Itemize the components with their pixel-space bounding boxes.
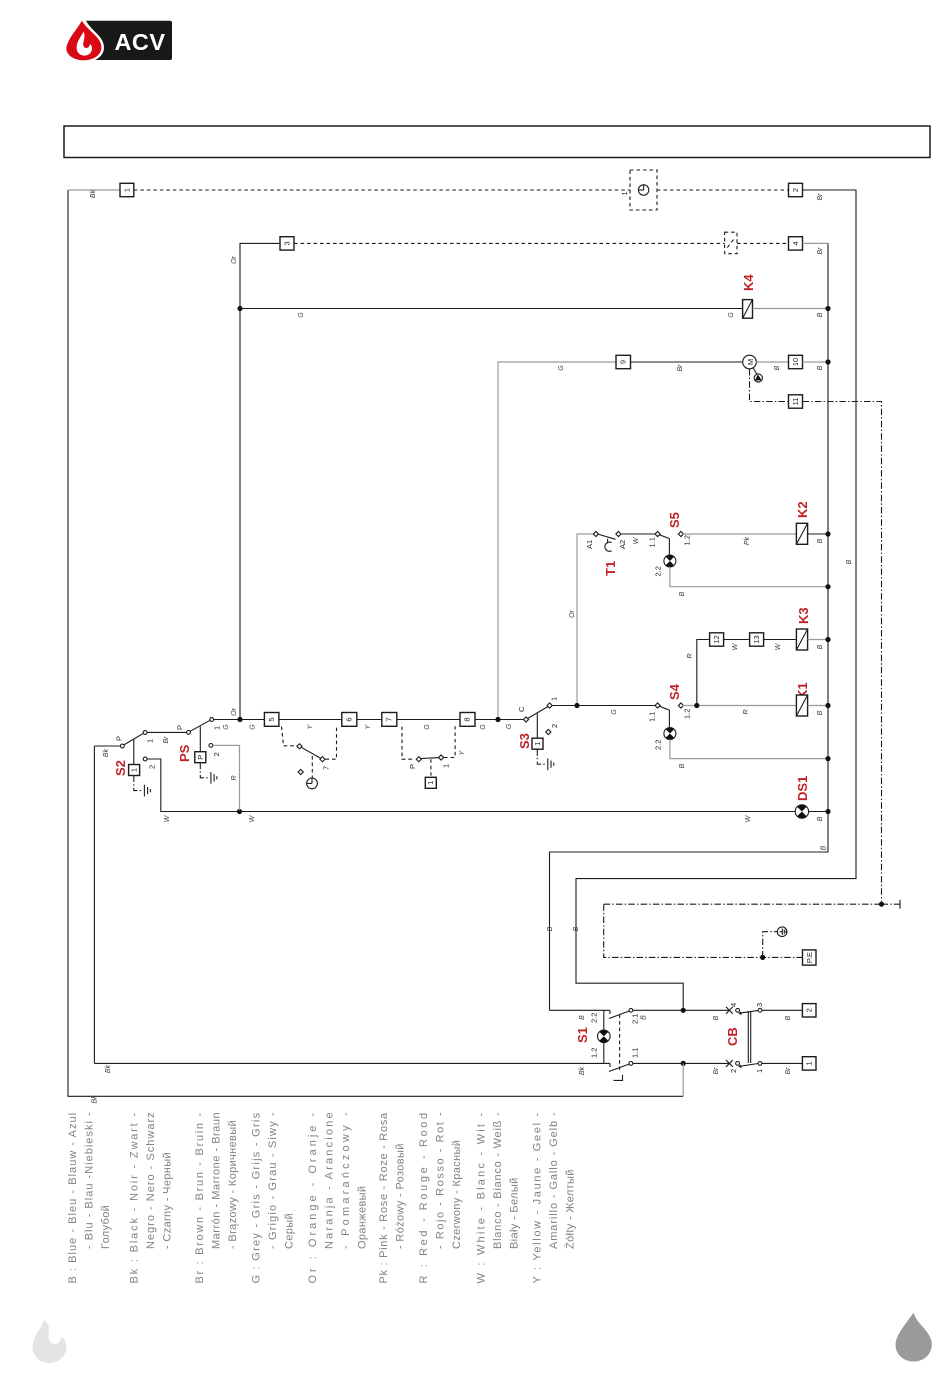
wire Or connector 3 stem [240,243,280,719]
terminal PE box [803,950,817,965]
svg-text:B : Blue - Bleu - Blauw - Azu: B : Blue - Bleu - Blauw - Azul [67,1113,79,1284]
svg-text:R: R [231,775,238,780]
svg-text:P: P [408,764,417,769]
svg-text:1.2: 1.2 [590,1048,599,1058]
wire B lamp S5 to bus [670,567,828,587]
svg-text:13: 13 [752,635,761,643]
svg-text:- Czarny - Черный: - Czarny - Черный [162,1152,174,1249]
wire B K2 to bus [808,533,828,535]
svg-text:1: 1 [620,191,629,195]
wire dashed connector 3 to option switch [294,242,725,244]
svg-text:Or: Or [231,255,238,263]
wire dashed timer to connector 2 [657,189,789,191]
connector 7 [382,713,397,727]
bus B vertical [550,243,829,1010]
svg-text:1: 1 [426,781,435,785]
svg-text:R: R [743,709,750,714]
wire Y 5 to 6 [279,719,342,721]
legend Y yellow [531,1112,576,1284]
svg-text:1: 1 [213,726,222,730]
node S4-bus [825,756,830,761]
wire B DS1 to bus [809,811,828,813]
switch S1 pole 1 wire [94,1062,610,1064]
svg-text:B: B [817,644,824,649]
svg-text:1: 1 [146,739,155,743]
node DS1-bus [825,809,830,814]
wire G S3 to S4 [552,705,657,707]
dashed link S1 poles [619,1015,621,1071]
svg-text:Bk: Bk [105,1064,112,1073]
svg-text:T1: T1 [603,561,618,576]
option switch dashed box [725,232,737,254]
pressure switch PS [176,718,222,763]
wire Or vertical to T1 [577,534,595,706]
svg-text:B: B [679,763,686,768]
svg-text:Amarillo - Gallo - Gelb -: Amarillo - Gallo - Gelb - [548,1112,560,1249]
wire R stem to connector 12 [697,640,710,706]
switch S1 pole 2 [590,1008,640,1024]
svg-text:K3: K3 [796,607,811,624]
svg-text:Bk: Bk [579,1066,586,1075]
svg-text:1: 1 [805,1061,814,1065]
wire Y 6 to 7 [357,719,382,721]
relay coil K3 [796,629,807,650]
svg-text:B: B [679,591,686,596]
node 10-bus [825,359,830,364]
wire B K3 to bus [808,639,828,641]
wire B motor to connector 10 [756,361,788,363]
wire Br connector 4 to bus B [803,242,829,244]
svg-text:DS1: DS1 [795,776,810,801]
svg-text:1.2: 1.2 [683,709,692,719]
wire Br connector 2 to right bus [576,190,856,1010]
svg-text:- Różowy - Розовый: - Różowy - Розовый [395,1143,407,1249]
svg-text:Серый: Серый [284,1213,296,1249]
svg-text:Оранжевый: Оранжевый [357,1186,369,1249]
svg-text:Br: Br [817,193,824,201]
ground PS [200,763,217,784]
wire return S1 to bottom rail [682,1063,684,1096]
switch S2 [94,745,120,747]
svg-text:G: G [223,724,230,730]
switch S3 [517,697,559,749]
svg-text:B: B [713,1015,720,1020]
svg-text:B: B [817,365,824,370]
svg-text:1.2: 1.2 [683,535,692,545]
lamp DS1 [795,805,808,818]
connector 4 [789,237,803,250]
svg-text:Bk: Bk [92,1095,99,1104]
svg-text:S4: S4 [667,683,682,700]
switch S1 pole 2 wire [550,1009,611,1011]
wire W S2 to DS1 [147,759,795,812]
svg-text:B: B [817,312,824,317]
svg-text:5: 5 [267,717,276,721]
svg-text:G: G [506,723,513,729]
legend R red [418,1112,463,1284]
switch S5 with lamp [648,531,692,555]
svg-text:9: 9 [619,360,628,364]
circuit breaker CB pole 1 [726,1060,764,1073]
wire G 8 to S3 [475,719,524,721]
svg-text:ACV: ACV [114,29,165,55]
svg-text:1: 1 [550,697,559,701]
svg-text:Negro - Nero - Schwarz: Negro - Nero - Schwarz [145,1112,157,1249]
connector 2 [789,183,803,196]
wire Bk feed to connector 1 [68,189,120,191]
svg-text:B: B [579,1015,586,1020]
svg-text:R: R [687,653,694,658]
node S3 wire / Or vertical [574,703,579,708]
mechanical link CB [748,1011,750,1063]
node K3-bus [825,637,830,642]
svg-text:B: B [573,926,580,931]
svg-text:7: 7 [322,766,331,770]
wire W 12 to 13 [724,639,750,641]
svg-text:B: B [817,710,824,715]
watermark flame bottom-left [33,1320,67,1363]
wire Br S2 to PS [147,731,187,733]
svg-text:Br: Br [713,1067,720,1075]
wire Bk S1 to CB pole 1 [633,1062,729,1064]
node G-row / motor stem [495,717,500,722]
svg-text:S3: S3 [517,733,532,749]
svg-text:2: 2 [550,724,559,728]
svg-text:S2: S2 [113,760,128,776]
connector 1 [120,183,134,196]
svg-text:Br: Br [163,736,170,744]
svg-text:Pk: Pk [744,536,751,545]
circuit breaker CB pole 2 [726,1003,764,1015]
svg-text:Żółty - Желтый: Żółty - Желтый [564,1169,577,1249]
wire R PS-2 drop [213,745,240,810]
ground S3 [537,749,554,770]
svg-text:M: M [746,359,755,365]
svg-text:B: B [821,845,828,850]
wire B K4 to bus [753,308,829,310]
svg-text:Blanco - Bianco - Weiß -: Blanco - Bianco - Weiß - [492,1112,504,1249]
svg-text:Br : Brown - Brun - Bruin -: Br : Brown - Brun - Bruin - [194,1113,206,1284]
wire PE dash-dot loop [604,903,882,905]
wire R S4 to K1 coil [683,705,797,707]
node K2-bus [825,531,830,536]
svg-text:7: 7 [385,717,394,721]
wire G to K4 coil [240,308,743,310]
option room stat between 7 and 8 [402,726,466,788]
node S1-CB top [681,1008,686,1013]
svg-text:2.1: 2.1 [631,1014,640,1024]
svg-text:S1: S1 [575,1027,590,1043]
connector 3 [280,237,294,250]
ground S2 [134,776,151,797]
switch S4 with lamp [648,703,692,728]
switch S1 pole 1 [590,1048,640,1081]
connector 8 [460,713,475,727]
svg-text:2.2: 2.2 [654,566,663,576]
svg-text:- Brązowy - Коричневый: - Brązowy - Коричневый [227,1120,239,1249]
svg-text:1: 1 [755,1069,764,1073]
svg-text:2.2: 2.2 [654,740,663,750]
timer option dashed box [630,170,657,210]
svg-text:- Rojo - Rosso - Rot -: - Rojo - Rosso - Rot - [435,1112,447,1249]
svg-text:Bk : Black - Noir - Zwart -: Bk : Black - Noir - Zwart - [129,1113,141,1284]
svg-text:2: 2 [805,1008,814,1012]
svg-text:6: 6 [345,717,354,721]
svg-text:G: G [480,724,487,730]
svg-text:K2: K2 [795,501,810,518]
connector 13 [750,633,764,646]
svg-text:B: B [774,365,781,370]
wire B S1 to CB pole 2 [633,1009,729,1011]
svg-text:Br: Br [677,364,684,372]
svg-text:C: C [517,706,526,712]
PE end tick [882,900,901,909]
svg-text:P: P [176,725,185,730]
svg-text:- Grigio - Grau - Siwy -: - Grigio - Grau - Siwy - [267,1112,279,1249]
lamp S4 2.2 [654,728,676,751]
svg-text:B: B [817,816,824,821]
legend B blue [67,1112,112,1284]
svg-text:Marrón - Marrone - Braun: Marrón - Marrone - Braun [211,1112,223,1249]
node PE branch [760,955,765,960]
svg-text:12: 12 [712,635,721,643]
node Or-row [237,717,242,722]
svg-text:K4: K4 [741,274,756,291]
connector 11 [789,395,803,408]
svg-text:B: B [846,559,853,564]
connector 1 bottom [802,1057,816,1070]
svg-text:Br: Br [817,247,824,255]
svg-text:Czerwony - Красный: Czerwony - Красный [451,1140,463,1249]
svg-text:B: B [817,538,824,543]
connector 12 [710,633,724,646]
legend Pk pink [378,1112,407,1284]
earth symbol in circle [763,927,787,958]
svg-text:3: 3 [283,241,292,245]
svg-text:G: G [424,724,431,730]
svg-text:W : White - Blanc - Wit -: W : White - Blanc - Wit - [475,1113,487,1284]
svg-text:Y : Yellow - Jaune - Geel -: Y : Yellow - Jaune - Geel - [531,1113,543,1284]
svg-text:G: G [558,365,565,371]
legend W white [475,1112,520,1284]
svg-text:P.E: P.E [805,952,814,963]
svg-text:S5: S5 [667,512,682,528]
svg-text:1: 1 [123,188,132,192]
svg-text:Bk: Bk [90,189,97,198]
svg-text:4: 4 [729,1003,738,1007]
switch S2 contacts [115,731,157,776]
svg-text:PS: PS [177,744,192,762]
wire G PS to connector row [214,719,265,721]
thermostat T1 [585,531,627,551]
watermark droplet bottom-right [896,1313,932,1362]
connector 9 [616,355,631,368]
option timer between 5 and 6 [282,726,337,789]
svg-text:10: 10 [791,358,800,366]
svg-text:CB: CB [725,1027,740,1046]
svg-text:G: G [250,724,257,730]
svg-text:Br: Br [785,1067,792,1075]
svg-text:Bk: Bk [103,748,110,757]
wire Bk outer loop left/bottom [68,190,683,1096]
node S5-bus [825,584,830,589]
svg-text:2: 2 [148,765,157,769]
svg-text:8: 8 [463,717,472,721]
svg-text:Голубой: Голубой [100,1205,112,1249]
svg-text:B: B [547,926,554,931]
wire B K1 to bus [808,705,828,707]
wire Br connector 9 to motor [631,361,743,363]
svg-text:4: 4 [791,241,800,245]
connector 5 [264,713,279,727]
legend Br brown [194,1112,239,1284]
wire dashed option to connector 4 [737,242,789,244]
title box [64,126,930,158]
node S4-K3 stem [694,703,699,708]
node K4-bus [825,306,830,311]
wire dashed from connector 1 to timer [134,189,630,191]
svg-text:2: 2 [212,752,221,756]
wire PE left leg [604,904,803,957]
motor M pump [743,355,763,382]
connector 10 [789,355,803,368]
connector 6 [342,713,357,727]
svg-text:G: G [298,312,305,318]
wire B connector 10 to bus [803,361,829,363]
wire dash-dot connector 11 to PE bus [803,402,882,905]
legend G grey [250,1112,295,1284]
svg-text:G : Grey - Gris - Grijs - Gri: G : Grey - Gris - Grijs - Gris [250,1112,262,1283]
relay coil K1 [796,695,807,716]
svg-text:Or: Or [569,609,576,617]
svg-text:2: 2 [729,1069,738,1073]
svg-text:3: 3 [755,1003,764,1007]
svg-text:- Blu - Blau -Niebieski -: - Blu - Blau -Niebieski - [84,1112,96,1249]
ACV logo flame droplet [64,18,104,63]
svg-text:2.2: 2.2 [590,1013,599,1023]
svg-text:11: 11 [791,398,800,406]
svg-text:G: G [728,312,735,318]
svg-text:B: B [785,1015,792,1020]
svg-text:G: G [611,709,618,715]
svg-text:1: 1 [533,742,542,746]
node Or stem / K4 wire [237,306,242,311]
svg-text:Or: Or [231,707,238,715]
svg-text:B: B [641,1015,648,1020]
node S1-CB bottom [681,1061,686,1066]
legend Bk black [129,1112,174,1284]
wire B lamp S4 to bus [670,740,828,759]
svg-text:1.1: 1.1 [648,537,657,547]
wire dash-dot motor to connector 11 [750,369,789,402]
svg-text:P: P [115,736,124,741]
svg-text:1.1: 1.1 [631,1048,640,1058]
relay coil K4 [743,300,753,319]
wire W T1 to S5 [621,533,656,535]
legend Or orange [307,1112,369,1284]
ACV logo black box [85,21,172,60]
wire B CB to connector 2 [762,1009,803,1011]
svg-text:Biały - Белый: Biały - Белый [509,1177,521,1249]
wire G vertical to motor row [498,362,616,720]
svg-text:Pk : Pink - Rose - Roze - Rosa: Pk : Pink - Rose - Roze - Rosa [378,1112,390,1284]
wire Pk S5 to K2 coil [683,533,797,535]
lamp S1 [598,1010,611,1063]
svg-text:1.1: 1.1 [648,712,657,722]
node PE corner [879,902,884,907]
svg-text:A1: A1 [585,540,594,549]
svg-text:A2: A2 [618,540,627,549]
svg-text:1: 1 [130,768,139,772]
connector 2 bottom [802,1004,816,1017]
node K1-bus [825,703,830,708]
lamp S5 2.2 [654,555,676,577]
wire Bk inner vertical [93,746,95,1063]
timer clock symbol [638,185,648,195]
node PS drop [237,809,242,814]
wire G 7 to 8 [397,719,460,721]
svg-text:2: 2 [791,188,800,192]
svg-text:P: P [196,755,205,760]
relay coil K2 [796,523,807,544]
wire W 13 to K3 coil [764,639,797,641]
svg-text:1: 1 [442,764,451,768]
wire Br CB to connector 1 [762,1062,803,1064]
